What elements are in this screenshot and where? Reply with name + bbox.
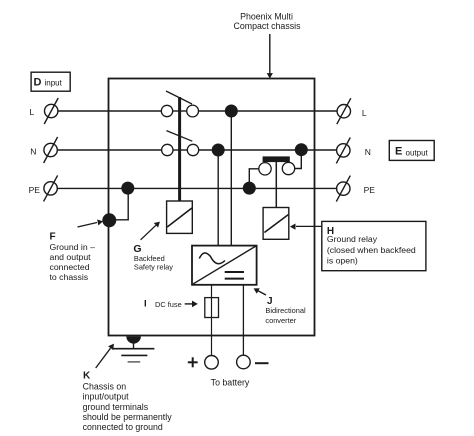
switch N blade (166, 131, 192, 142)
svg-text:DC fuse: DC fuse (155, 300, 182, 309)
wire contact to PE node (249, 169, 258, 189)
svg-text:L: L (362, 108, 367, 118)
node F on chassis (102, 213, 116, 227)
terminal L output (337, 98, 351, 124)
svg-text:F: F (50, 231, 56, 242)
wire N input (57, 149, 161, 151)
switch L contacts (161, 105, 198, 117)
svg-text:N: N (365, 147, 371, 157)
label J (265, 296, 306, 325)
svg-text:is open): is open) (327, 255, 358, 265)
label: Phoenix Multi Compact chassis (234, 12, 302, 32)
wire converter to battery minus (242, 284, 244, 355)
H label box (322, 221, 426, 270)
switch N contacts (162, 144, 199, 155)
node on PE line right (243, 182, 256, 195)
node on N line right (295, 143, 308, 156)
ground stub (133, 342, 135, 349)
wire L after switch (199, 110, 338, 112)
converter box J (192, 246, 257, 285)
svg-text:and output: and output (50, 252, 92, 262)
wire N node to ground relay contact (295, 150, 302, 169)
wire L between contacts (173, 110, 187, 112)
svg-text:Ground relay: Ground relay (327, 234, 378, 244)
svg-text:connected: connected (50, 262, 90, 272)
arrow to converter J (254, 288, 267, 295)
svg-text:output: output (406, 148, 429, 157)
wire N node to converter (217, 150, 219, 246)
wire PE full run (57, 187, 337, 189)
svg-text:ground terminals: ground terminals (83, 402, 149, 412)
svg-text:K: K (83, 370, 91, 381)
ground relay contact bar (263, 156, 290, 162)
arrow to chassis ground (96, 344, 114, 368)
arrow to relay coil G (141, 222, 160, 240)
wire PE node to chassis node F (112, 188, 128, 220)
svg-text:Compact chassis: Compact chassis (234, 21, 302, 31)
wire fuse inner (211, 298, 213, 318)
battery plus terminal (205, 356, 219, 370)
svg-text:PE: PE (29, 185, 41, 195)
svg-text:should be permanently: should be permanently (83, 412, 173, 422)
ground relay contact circles (259, 162, 295, 175)
wire converter to battery plus (through fuse) (211, 284, 213, 355)
switch linkage (thick) (178, 97, 181, 201)
relay coil G (167, 201, 193, 233)
arrow from chassis label to box top (267, 34, 273, 79)
svg-text:connected to ground: connected to ground (83, 422, 163, 432)
E output label box (389, 141, 434, 161)
switch L blade (166, 91, 192, 104)
label I DC fuse (144, 298, 182, 309)
label K (83, 370, 173, 432)
ground bar 2 (121, 354, 147, 356)
svg-text:Safety relay: Safety relay (134, 263, 173, 272)
node on PE line left (121, 182, 134, 195)
svg-text:Chassis on: Chassis on (83, 381, 127, 391)
chassis box (109, 79, 315, 336)
terminal N output (336, 137, 350, 163)
label F (50, 231, 96, 282)
svg-text:I: I (144, 298, 147, 309)
node on L line (225, 105, 238, 118)
wire L node to converter (230, 111, 232, 246)
svg-text:D: D (34, 77, 42, 89)
svg-text:To battery: To battery (211, 378, 250, 388)
svg-text:Ground in –: Ground in – (50, 242, 96, 252)
ground bar 3 (128, 361, 141, 363)
terminal L input (44, 98, 58, 124)
svg-text:PE: PE (364, 185, 376, 195)
relay coil H (263, 208, 289, 240)
terminal PE input (44, 175, 58, 201)
battery minus terminal (237, 355, 251, 369)
terminal PE output (336, 176, 350, 202)
wire contact bar to relay coil H (275, 162, 277, 208)
minus sign (255, 362, 269, 364)
DC fuse body (205, 298, 219, 318)
ground bar 1 (112, 348, 155, 350)
wire L input (58, 110, 161, 112)
arrow from H box to relay coil (290, 224, 322, 230)
svg-text:to chassis: to chassis (50, 272, 89, 282)
svg-text:E: E (395, 146, 402, 158)
svg-text:(closed when backfeed: (closed when backfeed (327, 245, 416, 255)
svg-text:N: N (30, 147, 36, 157)
arrow to node F (78, 220, 104, 228)
svg-text:L: L (30, 107, 35, 117)
svg-text:converter: converter (265, 316, 296, 325)
plus sign (188, 357, 198, 367)
chassis ground node K (126, 336, 141, 343)
svg-text:Bidirectional: Bidirectional (265, 306, 306, 315)
svg-text:input: input (45, 78, 63, 87)
svg-text:Phoenix Multi: Phoenix Multi (240, 12, 293, 22)
node on N line (212, 144, 225, 157)
D input label box (31, 72, 70, 91)
wire N between contacts (173, 149, 187, 151)
label G (133, 243, 173, 272)
terminal N input (44, 137, 58, 163)
svg-text:input/output: input/output (83, 392, 130, 402)
wire N after switch (199, 149, 337, 151)
arrow to DC fuse (185, 301, 198, 308)
